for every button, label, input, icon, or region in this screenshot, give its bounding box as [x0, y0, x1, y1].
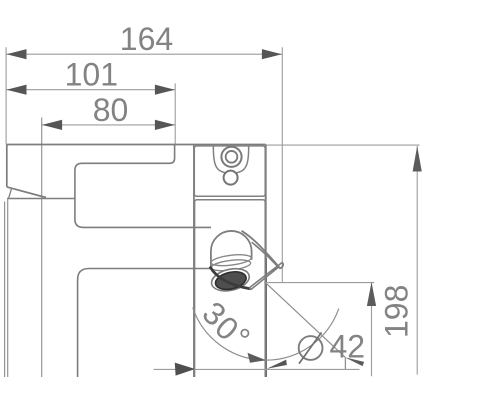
nozzle collar band 1 [210, 253, 251, 268]
outlet height dimension line [371, 282, 373, 377]
body left edge [193, 145, 195, 378]
swivel cap band [250, 262, 282, 289]
svg-text:101: 101 [65, 57, 118, 93]
projection line below tip a [4, 202, 6, 378]
faucet top edge [7, 144, 266, 146]
swivel angle arc [193, 308, 339, 361]
handle cup [213, 146, 248, 174]
nozzle dark opening [214, 269, 248, 292]
top extension line to 198 dimension [266, 144, 420, 146]
nozzle shadow swoosh [210, 267, 250, 289]
arrow 80 right [155, 120, 175, 130]
extension line x=282.3 (swivel nozzle reach) [281, 47, 283, 283]
dimension line 80 [42, 124, 175, 126]
diameter symbol circle [299, 336, 323, 360]
aerator angled underside [7, 187, 46, 197]
extension line x=41.7 (aerator inner edge) [41, 118, 43, 378]
nozzle dome [211, 231, 252, 269]
svg-text:42: 42 [330, 329, 366, 365]
handle ring inner [226, 151, 238, 163]
handle small circle [224, 171, 238, 185]
svg-text:164: 164 [120, 21, 173, 57]
diameter symbol slash [299, 332, 322, 363]
basin rim outline [78, 269, 211, 378]
swivel band inner arc [252, 242, 279, 267]
spout body seam [75, 145, 211, 228]
body lower section [195, 200, 266, 377]
handle ring outer [221, 147, 241, 167]
leader stub [344, 357, 346, 369]
outlet height extension line [264, 282, 374, 284]
arrow 101 right [155, 85, 175, 95]
svg-text:198: 198 [379, 285, 415, 338]
arrow 164 right [262, 49, 282, 59]
nozzle collar band 2 [211, 258, 252, 273]
extension line x=175.2 (handle seam) [174, 83, 176, 144]
extension line left (spout tip) [5, 47, 7, 144]
body right edge lower overlap [265, 258, 267, 377]
body right edge [265, 145, 267, 378]
nozzle rim ring [209, 265, 251, 294]
aerator bottom edge [7, 198, 75, 200]
height 198 dimension line [416, 146, 418, 375]
diameter dimension line [154, 368, 360, 370]
arrow diameter right [267, 360, 287, 369]
swivel band outer arc [242, 231, 284, 268]
aerator face line [9, 188, 12, 198]
arc arrowhead [248, 353, 267, 363]
dimension line 164 [6, 53, 282, 55]
arrow 101 left [7, 85, 27, 95]
radius leader line [265, 283, 345, 358]
svg-text:80: 80 [93, 92, 129, 128]
arrow diameter left [175, 363, 195, 376]
outlet height arrow up [367, 282, 376, 306]
height 198 arrow up [413, 146, 422, 171]
cartridge cover rectangle [194, 146, 265, 196]
dimension line 101 [6, 89, 175, 91]
slim leader arrowhead [345, 357, 365, 366]
spout left edge [6, 145, 8, 187]
projection line below tip b [7, 199, 9, 378]
arrow 164 left [7, 49, 27, 59]
arrow 80 left [42, 120, 62, 130]
